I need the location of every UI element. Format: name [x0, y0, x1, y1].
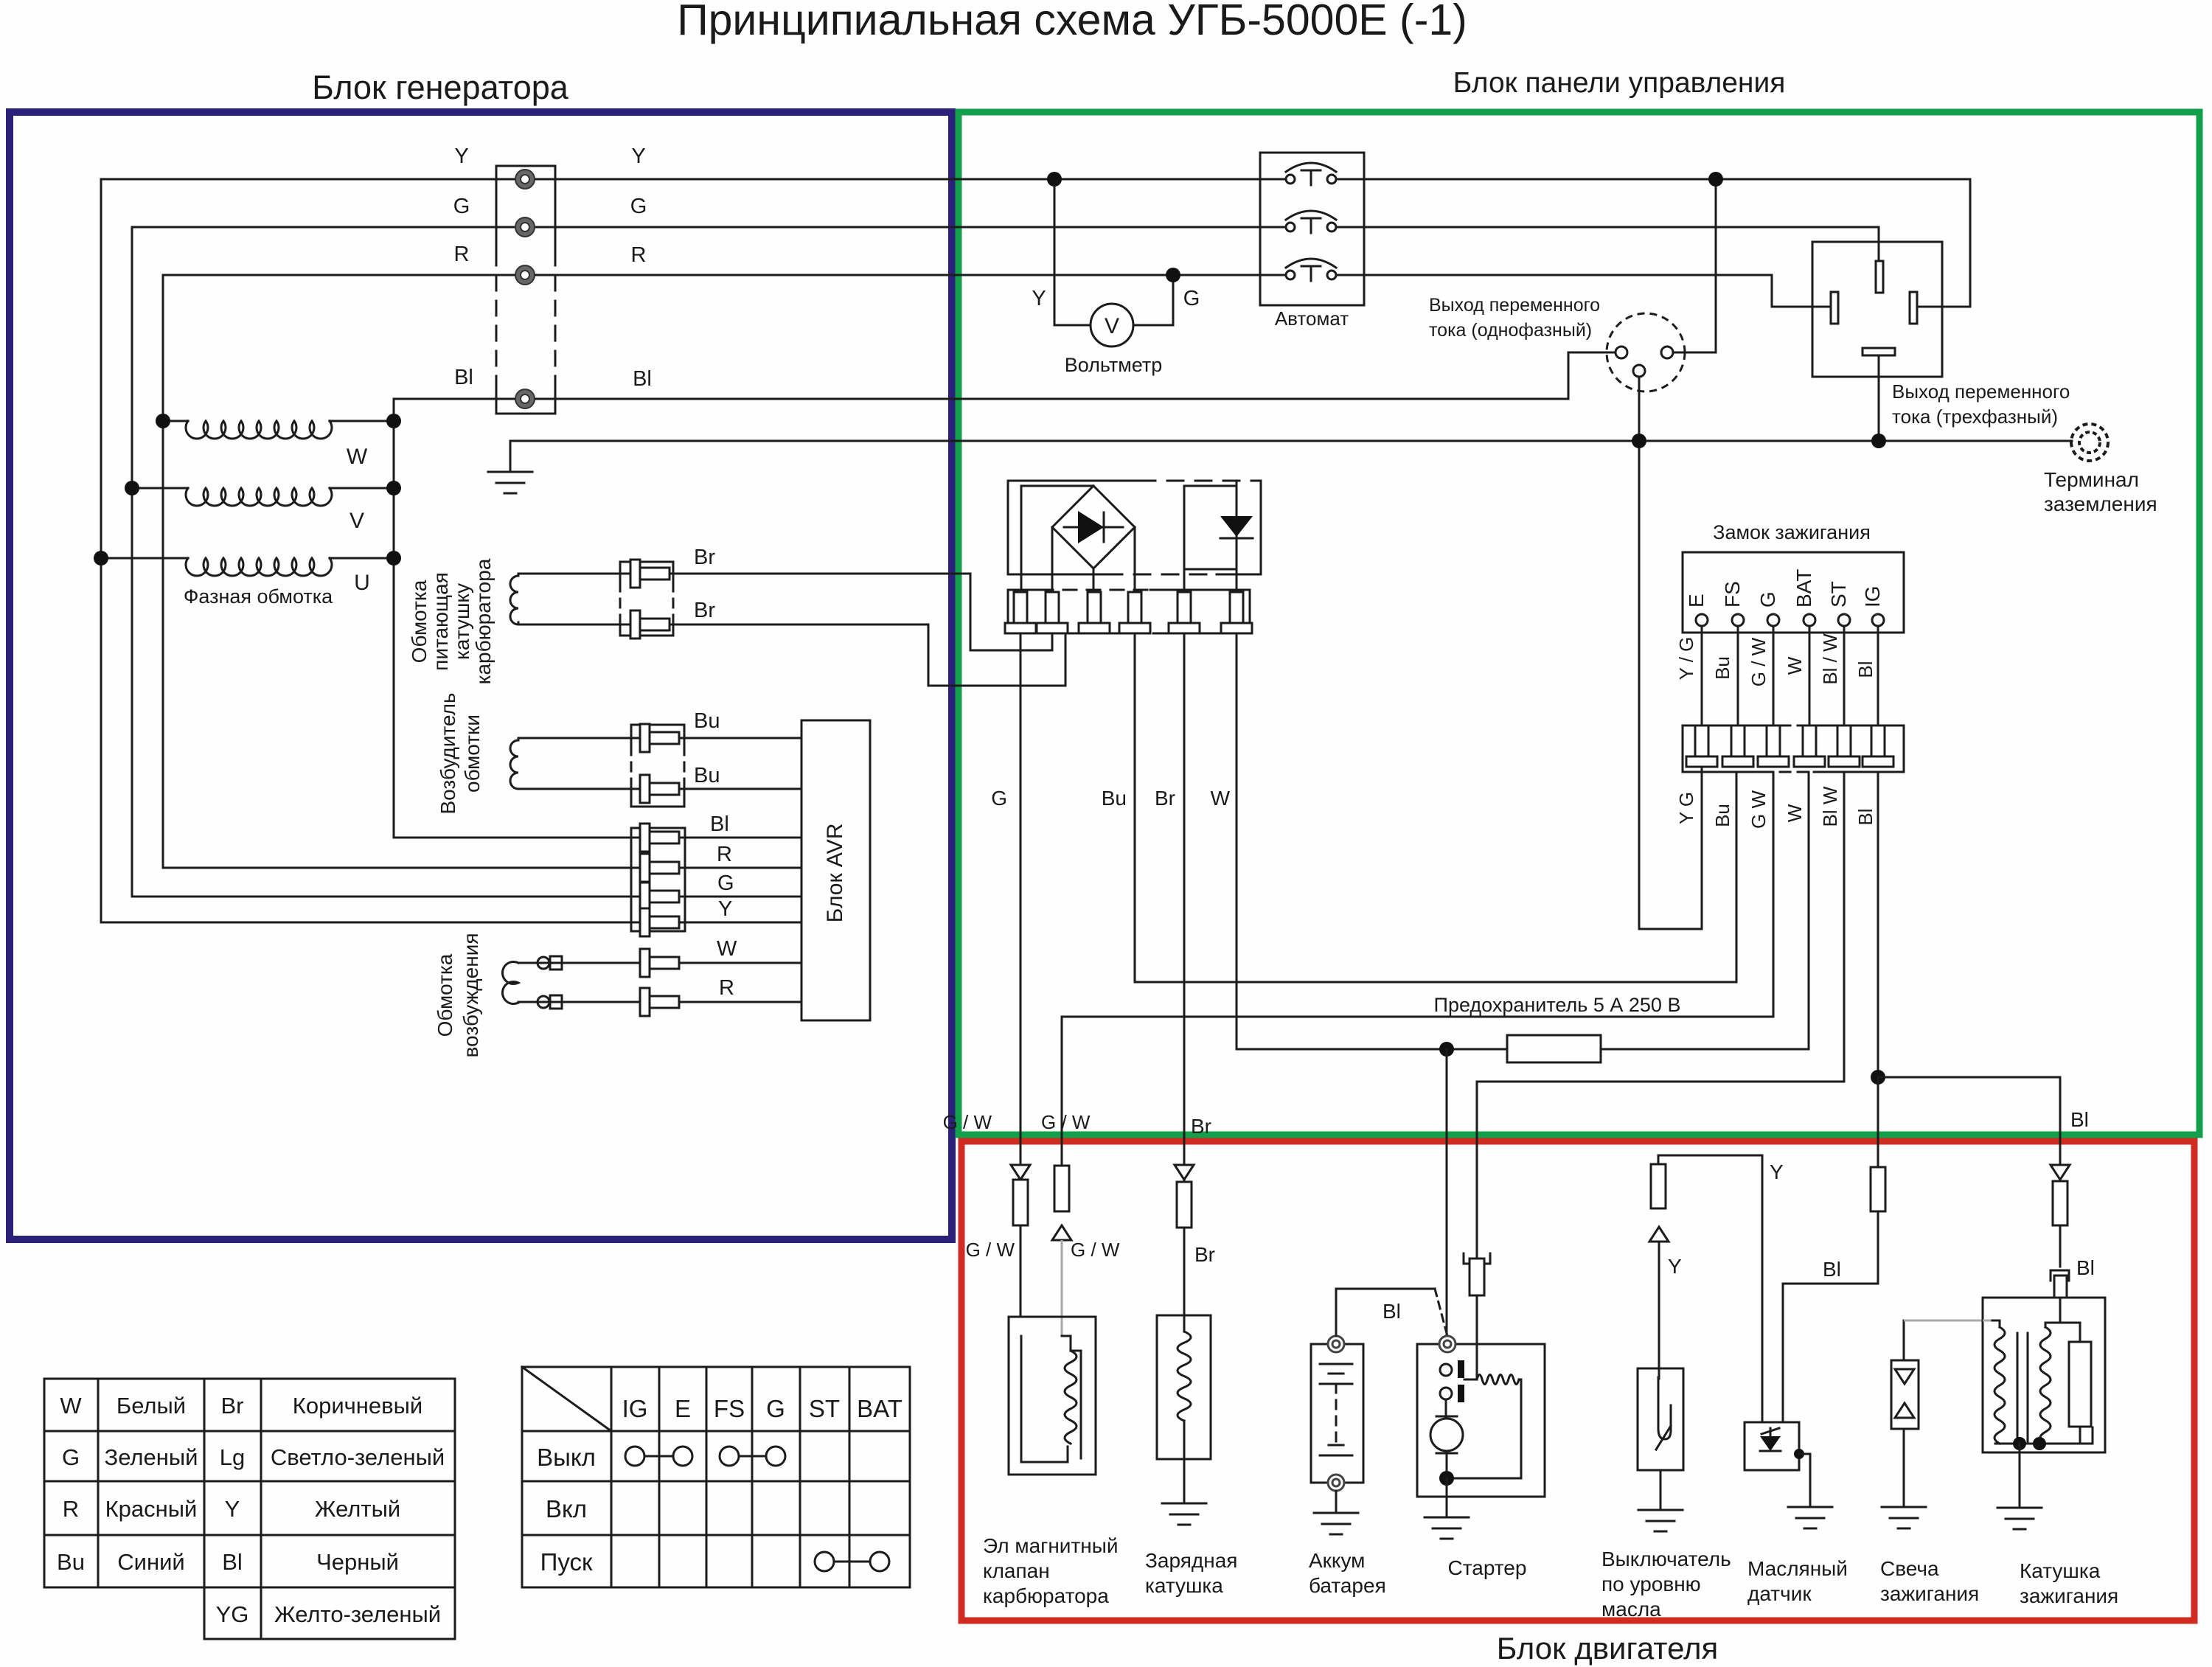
wire common bus vertical	[393, 399, 395, 838]
phase winding V row	[132, 487, 188, 490]
solenoid valve inner	[1061, 1328, 1063, 1336]
svg-text:Блок AVR: Блок AVR	[823, 824, 847, 923]
battery box	[1311, 1344, 1363, 1483]
svg-text:Bu: Bu	[1102, 787, 1127, 810]
wire pin5 up	[1183, 569, 1186, 601]
svg-text:G: G	[766, 1395, 785, 1422]
wire Br1 jog	[970, 574, 972, 650]
svg-text:U: U	[354, 571, 370, 595]
starter relay pin	[1464, 1253, 1470, 1264]
ignition switch state table	[522, 1366, 910, 1368]
svg-text:FS: FS	[714, 1395, 745, 1422]
wire W down to fuse line	[1236, 633, 1238, 1049]
wire Bu down and right to FS	[1134, 633, 1136, 982]
svg-text:IG: IG	[1861, 585, 1884, 608]
battery terminals	[1328, 1336, 1344, 1352]
svg-text:обмотки: обмотки	[461, 714, 484, 793]
svg-text:Блок генератора: Блок генератора	[312, 69, 569, 106]
bridge diode symbol	[1064, 526, 1123, 529]
wire outlet right to Y	[1673, 352, 1716, 354]
svg-text:G: G	[1756, 591, 1779, 608]
single diode box	[1184, 486, 1237, 569]
ignition connector pin BAT	[1803, 725, 1816, 756]
ignition pin E	[1696, 614, 1708, 626]
svg-text:заземления: заземления	[2044, 493, 2157, 515]
ignition coil primary	[1983, 1320, 1992, 1322]
svg-text:G: G	[62, 1444, 80, 1470]
svg-text:G: G	[630, 195, 647, 218]
AVR pin R	[640, 854, 650, 882]
svg-text:катушка: катушка	[1145, 1574, 1223, 1597]
svg-text:катушку: катушку	[451, 583, 473, 660]
solenoid valve box	[1009, 1317, 1096, 1475]
svg-text:Блок двигателя: Блок двигателя	[1497, 1631, 1719, 1666]
breaker pole G	[1286, 223, 1295, 232]
voltmeter branch G	[1133, 324, 1173, 327]
svg-text:карбюратора: карбюратора	[983, 1584, 1109, 1607]
svg-text:Bl: Bl	[1854, 661, 1877, 678]
oil sensor Y wire	[1761, 1155, 1764, 1422]
svg-text:Bl: Bl	[222, 1549, 243, 1575]
wire R to AVR	[163, 867, 801, 869]
svg-text:G / W: G / W	[1747, 637, 1770, 686]
solenoid valve wire G/W grey	[1054, 1166, 1069, 1211]
starter motor	[1430, 1419, 1463, 1451]
svg-text:Пуск: Пуск	[540, 1548, 593, 1576]
wire bridge plus to pin1	[1021, 485, 1093, 487]
phase winding U row	[101, 557, 188, 560]
svg-text:Светло-зеленый: Светло-зеленый	[271, 1444, 445, 1470]
junction to starter	[1439, 1042, 1454, 1057]
svg-text:зажигания: зажигания	[1880, 1582, 1979, 1605]
ignition coil ground	[2019, 1444, 2021, 1508]
generator block box	[10, 112, 952, 1239]
charging coil ground	[1183, 1459, 1186, 1503]
svg-text:Масляный: Масляный	[1747, 1557, 1848, 1580]
pin bottom bar	[1863, 348, 1895, 355]
contact Vykl IG-E	[625, 1447, 644, 1466]
ignition coil secondary	[2045, 1322, 2060, 1324]
svg-text:Y: Y	[225, 1496, 240, 1522]
svg-text:Y G: Y G	[1675, 792, 1697, 824]
wire bottom pin to ground bus	[1878, 355, 1880, 441]
svg-text:Y: Y	[718, 897, 732, 921]
svg-text:Блок панели управления: Блок панели управления	[1453, 67, 1786, 99]
excitation connector small W	[538, 957, 549, 969]
svg-text:Принципиальная схема УГБ-5000Е: Принципиальная схема УГБ-5000Е (-1)	[677, 0, 1467, 44]
oil sensor Bl wire	[1871, 1167, 1885, 1211]
svg-text:R: R	[719, 976, 734, 1000]
wire Y to right pin	[1969, 179, 1972, 307]
svg-text:FS: FS	[1721, 581, 1744, 608]
svg-text:YG: YG	[216, 1601, 249, 1627]
oil sensor box	[1745, 1422, 1799, 1470]
svg-text:R: R	[454, 243, 470, 266]
carb winding connector box	[620, 561, 673, 563]
ignition connector pin FS	[1731, 725, 1745, 756]
svg-text:G: G	[991, 787, 1007, 810]
svg-text:Bl: Bl	[1382, 1300, 1401, 1323]
battery plates	[1320, 1363, 1352, 1365]
svg-text:Y: Y	[1770, 1160, 1784, 1183]
ignition connector pin IG	[1871, 725, 1885, 756]
svg-text:G: G	[1183, 287, 1200, 310]
svg-text:Белый: Белый	[116, 1393, 186, 1419]
ignition pin IG	[1872, 614, 1884, 626]
svg-text:тока (однофазный): тока (однофазный)	[1429, 320, 1592, 341]
AVR pin G	[640, 883, 650, 911]
phase winding W row	[163, 420, 188, 422]
rect connector pin4	[1128, 592, 1141, 623]
ignition connector pin ST	[1837, 725, 1851, 756]
wire G to AVR	[132, 896, 801, 898]
svg-text:BAT: BAT	[857, 1395, 902, 1422]
contact Pusk ST-BAT	[815, 1552, 834, 1571]
svg-text:Свеча: Свеча	[1880, 1557, 1939, 1580]
ignition pin G	[1767, 614, 1779, 626]
spark plug top wire to coil	[1903, 1320, 1905, 1360]
rect connector pin6	[1230, 592, 1243, 623]
ignition coil core	[2017, 1333, 2019, 1441]
fuse wire	[1237, 1048, 1507, 1051]
oil switch pin	[1658, 1155, 1660, 1164]
svg-text:клапан: клапан	[983, 1559, 1050, 1582]
oil switch ground	[1660, 1470, 1662, 1510]
wire G to top pin	[1878, 227, 1880, 261]
svg-text:Автомат: Автомат	[1275, 307, 1349, 330]
svg-text:Красный: Красный	[105, 1496, 198, 1522]
wire starter feed down	[1446, 1049, 1448, 1336]
svg-text:питающая: питающая	[429, 572, 452, 671]
solenoid valve wire G/W black	[1011, 1165, 1030, 1180]
terminal Bl	[518, 391, 532, 406]
single phase outlet circle	[1607, 313, 1685, 391]
svg-text:Bu: Bu	[1711, 656, 1733, 680]
wire Br down	[1183, 633, 1186, 1180]
ignition pin BAT	[1804, 614, 1815, 626]
svg-text:Bl: Bl	[633, 367, 652, 391]
svg-text:Y: Y	[454, 145, 468, 168]
svg-text:W: W	[1784, 656, 1806, 675]
svg-text:Выключатель: Выключатель	[1601, 1548, 1731, 1570]
svg-text:ST: ST	[809, 1395, 840, 1422]
svg-text:Br: Br	[1191, 1115, 1211, 1138]
excitation pin W	[640, 949, 650, 977]
svg-text:Вкл: Вкл	[546, 1495, 587, 1522]
breaker pole Y	[1286, 175, 1295, 184]
svg-text:Bl: Bl	[454, 366, 473, 389]
wire Y left vertical	[100, 179, 102, 922]
bridge rectifier diamond	[1052, 486, 1135, 568]
contact Vykl FS-G	[720, 1447, 739, 1466]
spark plug box	[1891, 1360, 1919, 1429]
carb connector pin2	[630, 610, 640, 638]
voltmeter branch Y	[1054, 179, 1056, 325]
color legend table	[44, 1378, 455, 1380]
ignition lower connector box	[1683, 725, 1762, 727]
excitation winding coil	[502, 961, 518, 1003]
pin top	[1876, 261, 1883, 293]
svg-text:Терминал: Терминал	[2044, 468, 2139, 491]
svg-text:Bl: Bl	[2076, 1256, 2095, 1279]
svg-text:Br: Br	[1155, 787, 1175, 810]
rectifier connector box	[1008, 589, 1040, 591]
wire bridge bottom to pin3	[1093, 568, 1095, 601]
oil level switch float symbol	[1658, 1368, 1660, 1379]
starter box	[1417, 1344, 1545, 1497]
svg-text:Эл магнитный: Эл магнитный	[983, 1534, 1119, 1557]
wire W row	[518, 962, 801, 964]
oil level switch Y bridge wire	[1658, 1155, 1762, 1157]
svg-text:Y: Y	[631, 145, 645, 168]
svg-text:W: W	[347, 445, 368, 469]
wire Bl line horizontal	[394, 398, 1568, 400]
svg-text:Зеленый: Зеленый	[105, 1444, 198, 1470]
charging coil wire Br	[1175, 1165, 1194, 1180]
svg-text:Обмотка: Обмотка	[434, 953, 456, 1037]
svg-text:Bl: Bl	[710, 812, 729, 836]
AVR connector box	[631, 828, 685, 931]
ignition coil bottom bus	[1995, 1443, 2093, 1445]
svg-text:R: R	[631, 243, 647, 267]
ignition pin FS	[1732, 614, 1744, 626]
wire Bu2	[518, 788, 801, 790]
wire Y line horizontal	[101, 178, 1287, 181]
svg-text:возбуждения: возбуждения	[459, 933, 482, 1058]
ignition coil box	[1983, 1298, 2105, 1452]
ignition pin ST	[1838, 614, 1850, 626]
svg-text:по уровню: по уровню	[1601, 1573, 1701, 1595]
ground symbol generator	[509, 441, 512, 472]
pin right	[1910, 292, 1917, 324]
svg-text:Bu: Bu	[57, 1549, 85, 1575]
starter relay coil	[1464, 1379, 1477, 1381]
battery ground	[1335, 1491, 1338, 1513]
svg-text:G / W: G / W	[966, 1239, 1015, 1261]
svg-text:Выкл: Выкл	[537, 1444, 596, 1471]
charging coil spring	[1183, 1315, 1186, 1332]
svg-text:Коричневый: Коричневый	[293, 1393, 422, 1419]
wire Br2 jog	[928, 624, 930, 686]
svg-text:Bl W: Bl W	[1819, 786, 1841, 826]
svg-text:зажигания: зажигания	[2020, 1584, 2118, 1607]
svg-text:IG: IG	[622, 1395, 648, 1422]
starter post terminal	[1439, 1336, 1455, 1352]
svg-text:V: V	[349, 509, 364, 533]
wire Y to AVR	[101, 922, 801, 924]
svg-text:Желтый: Желтый	[315, 1496, 400, 1522]
svg-text:Y / G: Y / G	[1675, 637, 1697, 681]
svg-text:Bu: Bu	[694, 764, 720, 787]
exciter pin2	[640, 775, 650, 803]
outlet pin left	[1615, 347, 1627, 358]
svg-text:W: W	[1211, 787, 1231, 810]
AVR block box	[801, 720, 870, 1020]
diagonal in header	[522, 1367, 611, 1431]
svg-text:G: G	[453, 195, 470, 218]
svg-text:G / W: G / W	[943, 1111, 992, 1133]
breaker pole R	[1286, 271, 1295, 279]
svg-text:Желто-зеленый: Желто-зеленый	[274, 1601, 441, 1627]
svg-text:Обмотка: Обмотка	[408, 580, 431, 663]
wire IG to ignition coil	[1878, 1076, 2060, 1079]
svg-text:Выход переменного: Выход переменного	[1429, 295, 1600, 316]
wire IG down with junction	[1877, 772, 1879, 1077]
fuse body	[1507, 1035, 1601, 1062]
terminal block rectangle	[496, 165, 555, 167]
svg-text:E: E	[675, 1395, 691, 1422]
wire R row	[518, 1001, 801, 1003]
svg-text:Bu: Bu	[694, 709, 720, 733]
ignition switch box	[1683, 552, 1904, 633]
svg-text:W: W	[60, 1393, 82, 1419]
single diode	[1236, 481, 1238, 601]
terminal G	[518, 220, 532, 234]
pin left	[1831, 292, 1838, 324]
svg-text:тока (трехфазный): тока (трехфазный)	[1892, 406, 2058, 428]
svg-text:G / W: G / W	[1041, 1111, 1091, 1133]
svg-text:Bl: Bl	[2070, 1108, 2089, 1131]
svg-text:карбюратора: карбюратора	[472, 558, 495, 684]
svg-text:R: R	[717, 843, 732, 866]
svg-text:Bl: Bl	[1823, 1258, 1841, 1281]
wire E pin to ground bus	[1701, 626, 1703, 929]
wire Bl to AVR	[394, 837, 801, 839]
starter ground	[1446, 1478, 1448, 1517]
svg-text:Вольтметр: Вольтметр	[1065, 354, 1163, 376]
ignition connector pin G	[1767, 725, 1780, 756]
wire Br2	[518, 624, 928, 626]
excitation connector small R	[538, 996, 549, 1008]
ground bus wire	[510, 440, 2072, 442]
svg-text:E: E	[1685, 594, 1708, 608]
rect connector pin1	[1014, 592, 1027, 623]
wire ST down-left-down	[1843, 772, 1846, 1082]
svg-text:масла: масла	[1601, 1598, 1661, 1621]
oil sensor thyristor	[1760, 1436, 1781, 1451]
carb connector pin1	[630, 560, 640, 588]
oil level switch box	[1638, 1368, 1683, 1470]
charging coil box	[1157, 1315, 1211, 1459]
wire R line horizontal	[163, 274, 1287, 276]
wire G/W branch from ignition G	[1773, 772, 1775, 1017]
exciter pin1	[640, 724, 650, 752]
svg-text:Br: Br	[694, 599, 715, 622]
three phase outlet box	[1812, 242, 1942, 377]
wire R left vertical	[162, 275, 164, 868]
svg-text:Y: Y	[1668, 1255, 1682, 1278]
wire bridge right to pin4	[1134, 527, 1136, 601]
rect connector pin2	[1046, 592, 1059, 623]
control panel block box	[959, 112, 2199, 1135]
svg-text:ST: ST	[1827, 581, 1850, 608]
svg-text:Черный: Черный	[316, 1549, 399, 1575]
ignition connector pin E	[1695, 725, 1708, 756]
svg-text:BAT: BAT	[1792, 569, 1815, 608]
ground terminal	[2071, 424, 2108, 461]
svg-text:R: R	[63, 1496, 79, 1522]
svg-text:V: V	[1105, 314, 1119, 338]
rectifier assembly outer box	[1008, 480, 1139, 482]
voltmeter circle	[1091, 304, 1133, 347]
svg-text:Зарядная: Зарядная	[1145, 1549, 1237, 1572]
svg-text:батарея: батарея	[1309, 1574, 1386, 1597]
svg-text:Замок зажигания: Замок зажигания	[1713, 521, 1871, 543]
svg-text:Br: Br	[694, 546, 715, 569]
svg-text:Y: Y	[1032, 287, 1046, 310]
wire Br1	[518, 573, 970, 575]
wire Bu1	[518, 737, 801, 739]
svg-text:Bl: Bl	[1854, 808, 1877, 825]
svg-text:G: G	[717, 871, 734, 895]
svg-text:G W: G W	[1747, 790, 1770, 829]
wire bridge left to pin2	[1051, 527, 1054, 601]
svg-text:W: W	[717, 937, 737, 961]
wire G line horizontal	[132, 226, 1287, 229]
breaker box	[1260, 153, 1364, 305]
wire outlet left to Bl	[1568, 352, 1615, 354]
battery positive wire Bl	[1335, 1289, 1338, 1336]
svg-text:Аккум: Аккум	[1309, 1549, 1365, 1572]
outlet pin right	[1661, 347, 1673, 358]
exciter winding coil	[510, 740, 518, 789]
ignition coil resistor	[2060, 1322, 2080, 1324]
terminal Y	[518, 172, 532, 187]
svg-text:G / W: G / W	[1071, 1239, 1120, 1261]
svg-text:W: W	[1784, 804, 1806, 822]
svg-text:датчик: датчик	[1747, 1582, 1812, 1605]
wire G left vertical	[131, 227, 133, 897]
terminal R	[518, 268, 532, 282]
svg-text:Синий: Синий	[117, 1549, 184, 1575]
exciter connector box	[631, 724, 684, 726]
svg-text:Выход переменного: Выход переменного	[1892, 380, 2070, 403]
svg-text:Возбудитель: Возбудитель	[437, 692, 459, 814]
wire outlet bottom to ground bus	[1638, 377, 1641, 929]
spark plug ground	[1903, 1429, 1905, 1507]
ignition coil wire Bl	[2051, 1165, 2070, 1180]
svg-text:Bu: Bu	[1711, 804, 1733, 827]
svg-text:Стартер: Стартер	[1448, 1556, 1527, 1579]
svg-text:Катушка: Катушка	[2020, 1559, 2101, 1582]
svg-text:Br: Br	[221, 1393, 244, 1419]
wires ignition pins down to connector	[1701, 626, 1703, 730]
svg-text:Br: Br	[1194, 1243, 1215, 1266]
AVR pin Bl	[640, 824, 650, 852]
carburetor feed winding coil	[518, 574, 520, 576]
rect connector pin5	[1178, 592, 1191, 623]
engine block box	[961, 1141, 2194, 1621]
rect connector pin3	[1088, 592, 1101, 623]
AVR pin Y	[640, 908, 650, 936]
svg-text:Bl / W: Bl / W	[1819, 633, 1841, 685]
svg-text:Lg: Lg	[220, 1444, 245, 1470]
excitation pin R	[640, 988, 650, 1016]
wire G down	[1020, 633, 1022, 1166]
starter contacts	[1440, 1364, 1452, 1376]
wire R to left pin	[1771, 275, 1773, 307]
oil sensor output	[1794, 1449, 1804, 1459]
outlet pin bottom	[1633, 365, 1645, 377]
svg-text:Фазная обмотка: Фазная обмотка	[184, 585, 333, 608]
svg-text:Предохранитель 5 А 250 В: Предохранитель 5 А 250 В	[1434, 994, 1681, 1016]
